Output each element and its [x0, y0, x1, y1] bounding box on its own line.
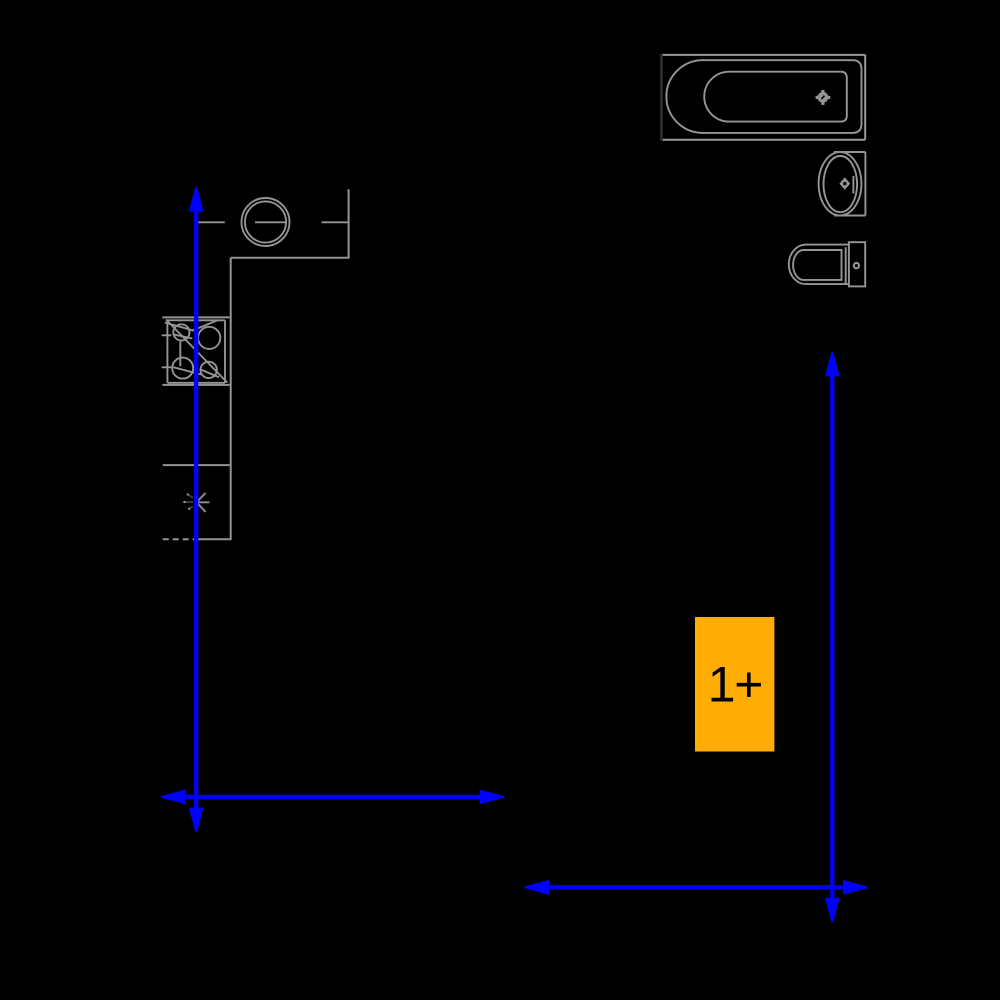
stove left vertical — [166, 320, 168, 383]
stove bottom line inner — [167, 382, 225, 384]
stove top line inner — [167, 319, 225, 321]
toilet — [789, 242, 865, 286]
kitchen counter edge left segment — [195, 221, 225, 223]
bathtub right edge — [864, 55, 866, 140]
snowflake W tip dot — [183, 501, 185, 503]
bathtub faucet stub E — [827, 96, 830, 99]
kitchen sink outer circle — [242, 198, 290, 246]
right vertical arrow shaft — [830, 375, 834, 899]
stove tick upper — [162, 334, 172, 336]
stove inner right vertical — [224, 320, 226, 383]
stove burner top-left — [173, 324, 189, 340]
snowflake arm W dark — [184, 501, 193, 503]
right vertical arrow top head — [825, 352, 840, 377]
washbasin outer ellipse — [819, 152, 862, 215]
washbasin inner ellipse — [824, 156, 858, 212]
washbasin faucet hole — [843, 182, 846, 185]
toilet bowl right vertical — [845, 247, 847, 283]
snowflake arm SE — [197, 502, 206, 512]
kitchen sink inner circle — [245, 201, 286, 242]
snowflake arm SW dark — [189, 507, 193, 509]
washbasin box — [819, 152, 866, 216]
kitchen counter vertical — [230, 258, 232, 540]
snowflake NW tip dot — [187, 494, 189, 496]
fridge bottom dashed — [163, 538, 196, 540]
bathtub top edge — [661, 54, 865, 56]
bathtub faucet body — [818, 92, 829, 103]
kitchen corner horizontal — [231, 257, 350, 259]
snowflake SW tip dot — [188, 508, 190, 510]
stove tick lower — [162, 366, 172, 368]
toilet bowl inner seat — [793, 250, 841, 280]
stove burner top-right — [198, 327, 220, 349]
bathtub left edge dark — [660, 54, 663, 141]
kitchen wall vertical right — [348, 189, 350, 258]
snowflake arm NW dark — [188, 494, 194, 498]
kitchen sink tap line — [255, 221, 286, 223]
stove burner bottom-right — [201, 362, 217, 378]
fridge top line — [163, 464, 230, 466]
washbasin right edge — [864, 152, 866, 216]
toilet bowl outer — [789, 245, 849, 285]
fridge bottom solid — [196, 538, 232, 540]
stove slash top-left b — [174, 334, 193, 338]
washbasin faucet diamond — [839, 177, 850, 189]
toilet tank rect — [849, 242, 865, 286]
stove bottom line outer — [162, 384, 229, 386]
snowflake arm E — [197, 501, 210, 503]
bathtub bottom edge — [661, 139, 865, 141]
bottom-right horizontal arrow right head — [843, 880, 868, 895]
bottom-left horizontal arrow right head — [480, 790, 505, 805]
svg-text:1+: 1+ — [708, 657, 763, 713]
left vertical arrow shaft — [194, 210, 198, 810]
stove burner bottom-left — [172, 358, 193, 379]
snowflake arm N — [196, 490, 198, 503]
left vertical arrow bottom head — [189, 808, 204, 833]
stove slash bottom-right — [200, 369, 219, 377]
orange room label box — [695, 617, 774, 752]
bathtub rim — [666, 60, 861, 133]
bathtub basin — [704, 72, 847, 122]
bathtub faucet stub N — [821, 90, 824, 93]
stove main diagonal — [166, 320, 227, 383]
stove slash top-left a — [165, 323, 193, 331]
stove vertical connector — [179, 342, 181, 367]
washbasin bottom edge — [834, 215, 865, 217]
snowflake arm S — [196, 502, 198, 515]
washbasin basin flat right edge — [852, 176, 854, 194]
toilet flush ring — [854, 263, 859, 268]
left vertical arrow top head — [189, 187, 204, 212]
bathtub faucet stub W — [816, 96, 819, 99]
snowflake arm NE — [197, 493, 206, 502]
washbasin top edge — [834, 151, 865, 153]
stove top line outer — [162, 316, 229, 318]
bottom-right horizontal arrow left head — [524, 880, 549, 895]
fridge snowflake — [197, 490, 210, 516]
bathtub faucet stub S — [821, 102, 824, 105]
bottom-left horizontal arrow shaft — [184, 795, 481, 799]
blue dimension arrows — [161, 187, 868, 922]
right vertical arrow bottom head — [825, 898, 840, 923]
bathtub outer rect bright edges — [661, 55, 865, 140]
kitchen counter edge right segment — [322, 221, 349, 223]
stove slash top-right — [192, 320, 219, 331]
bathtub faucet slash — [822, 96, 825, 99]
bottom-left horizontal arrow left head — [161, 790, 186, 805]
bottom-right horizontal arrow shaft — [547, 885, 845, 889]
stove slash bottom-left — [173, 367, 201, 374]
